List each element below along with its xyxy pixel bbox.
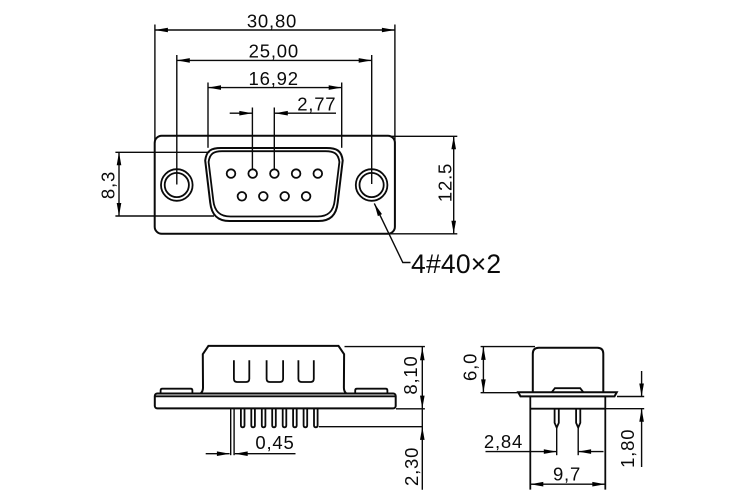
leader line 4#40x2 (374, 203, 410, 262)
dim 25,00 arrow left (177, 58, 190, 63)
pin B center extension (577, 428, 579, 455)
dim 2,77 extension line right (273, 108, 275, 170)
svg-text:30,80: 30,80 (247, 11, 297, 32)
dim 8,3 dimension line (118, 152, 120, 216)
svg-text:1,80: 1,80 (617, 429, 638, 468)
dim 6,0 arrow top (481, 347, 486, 360)
dim 25,00 dimension line (177, 59, 372, 61)
dim 2,77 extension line left (251, 108, 253, 170)
pin 6 (238, 192, 247, 201)
U slot 2 (267, 360, 284, 382)
mounting hole right outer (356, 169, 388, 201)
pin 1 (227, 169, 236, 178)
D-shell inner outline (209, 151, 340, 216)
pin 6 (283, 408, 287, 427)
dim 25,00 extension line left (176, 55, 178, 185)
shell side outline (533, 348, 604, 392)
pin 2 (248, 169, 257, 178)
dim 1,80 lower tail (641, 409, 643, 467)
dim 8,3 extension line top (115, 151, 209, 153)
dim 16,92 extension line right (341, 83, 343, 148)
svg-text:4#40×2: 4#40×2 (411, 249, 501, 279)
svg-text:2,77: 2,77 (297, 94, 336, 115)
D-shell outer outline (205, 148, 343, 221)
svg-text:12.5: 12.5 (435, 163, 456, 202)
pin 9 (314, 408, 318, 427)
mounting boss left (161, 389, 193, 394)
dim 12.5 extension line bottom (390, 233, 457, 235)
leader arrowhead (372, 202, 382, 216)
svg-text:8,10: 8,10 (400, 355, 421, 394)
dim 0,45 left tail (206, 453, 230, 455)
dim 0,45 right tail (235, 453, 296, 455)
dim 9,7 dimension line (530, 483, 605, 485)
svg-text:16,92: 16,92 (249, 68, 299, 89)
dim 8,10 / 2,30 dimension line (421, 347, 423, 490)
pin 4 (292, 169, 301, 178)
dim 25,00 arrow right (359, 58, 372, 63)
pin 5 (272, 408, 276, 427)
svg-text:0,45: 0,45 (255, 432, 294, 453)
dim 8,10 arrow bottom (420, 396, 425, 409)
dim 2,84 right tail (578, 451, 603, 453)
svg-text:8,3: 8,3 (98, 171, 119, 199)
dim 2,77 arrow left (pointing right) (239, 111, 252, 116)
U slot 1 (234, 360, 249, 382)
dim 1,80 extension line bottom (605, 408, 644, 410)
mounting hole right inner (360, 173, 384, 197)
dim 8,10 / 2,30 extension line middle (396, 408, 425, 410)
polarizing bump (552, 388, 584, 392)
svg-text:2,84: 2,84 (484, 431, 523, 452)
svg-text:9,7: 9,7 (553, 463, 581, 484)
dim 0,45 arrow right (pointing left) (235, 451, 248, 456)
housing outline (201, 346, 347, 394)
pin 7 (259, 192, 268, 201)
mounting hole left inner (165, 173, 189, 197)
pin 7 (293, 408, 297, 427)
flange edge-on (518, 392, 617, 396)
pin tip extension line (319, 426, 423, 428)
pin 9 (302, 192, 311, 201)
insulator step line (530, 408, 605, 410)
pin B (576, 409, 580, 428)
dim 2,84 left tail (486, 451, 557, 453)
dim 16,92 dimension line (208, 87, 342, 89)
dim 30,80 arrow left (155, 28, 168, 33)
mounting hole left outer (161, 169, 193, 201)
dim 2,84 arrow left (pointing right) (544, 449, 557, 454)
pin 1 (long, measured) (230, 408, 232, 455)
dim 8,3 arrow top (117, 152, 122, 165)
dim 12.5 arrow bottom (451, 221, 456, 234)
pin 4 (262, 408, 266, 427)
pin A center extension (556, 428, 558, 455)
pin 3 (270, 169, 279, 178)
dim 1,80 arrow bottom (pointing up) (639, 409, 644, 422)
dim 16,92 extension line left (207, 83, 209, 148)
dim 9,7 arrow left (530, 482, 543, 487)
dim 2,77 arrow right (pointing left) (275, 111, 288, 116)
dim 8,3 arrow bottom (117, 203, 122, 216)
connector flange outline (front view) (155, 136, 395, 234)
pin 3 (251, 408, 255, 427)
dim 6,0 extension line bottom (481, 392, 519, 394)
dim 25,00 extension line right (371, 55, 373, 184)
dim 16,92 arrow left (208, 85, 221, 90)
U slot 3 (298, 360, 313, 382)
svg-text:25,00: 25,00 (249, 41, 299, 62)
dim 1,80 arrow top (pointing down) (639, 384, 644, 397)
pin A (555, 409, 559, 428)
dim 12.5 dimension line (453, 136, 455, 234)
dim 2,77 dimension line left tail (230, 112, 253, 114)
pin 5 (314, 169, 323, 178)
dim 8,3 extension line bottom (115, 215, 214, 217)
insulator right edge (604, 396, 606, 489)
pin 8 (304, 408, 308, 427)
dim 30,80 dimension line (155, 29, 395, 31)
dim 6,0 extension line top (481, 346, 535, 348)
dim 1,80 extension line top (617, 396, 644, 398)
dim 2,30 arrow (pointing up) (420, 427, 425, 440)
svg-text:6,0: 6,0 (460, 353, 481, 381)
pin 8 (280, 192, 289, 201)
dim 8,10 extension line top (345, 346, 425, 348)
dim 8,10 arrow top (420, 347, 425, 360)
pin 2 (241, 408, 245, 427)
svg-text:2,30: 2,30 (401, 447, 422, 486)
mounting boss right (355, 389, 387, 394)
dim 6,0 dimension line (482, 347, 484, 393)
flange bar (155, 394, 396, 409)
dim 1,80 upper tail (641, 371, 643, 397)
dim 30,80 extension line right (394, 25, 396, 144)
dim 6,0 arrow bottom (481, 379, 486, 392)
dim 2,84 arrow right (pointing left) (578, 449, 591, 454)
dim 2,77 dimension line right tail (275, 112, 336, 114)
dim 12.5 extension line top (390, 135, 457, 137)
dim 30,80 extension line left (154, 25, 156, 144)
dim 16,92 arrow right (329, 85, 342, 90)
flange plate line (155, 395, 396, 397)
insulator left edge (529, 396, 531, 489)
dim 0,45 arrow left (pointing right) (217, 451, 230, 456)
dim 30,80 arrow right (382, 28, 395, 33)
dim 9,7 arrow right (592, 482, 605, 487)
dim 12.5 arrow top (451, 136, 456, 149)
